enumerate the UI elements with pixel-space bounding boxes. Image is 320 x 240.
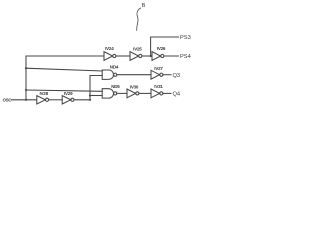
node dot PS3 tap <box>150 55 152 57</box>
svg-text:IV29: IV29 <box>64 91 73 96</box>
inverter IV27 <box>151 70 160 79</box>
wire IV31 to Q4 <box>163 92 171 94</box>
svg-text:OSC: OSC <box>3 98 12 103</box>
leader squiggle under B <box>137 8 141 31</box>
inverter IV24 <box>104 52 113 61</box>
inverter IV28 <box>37 96 46 104</box>
inverter IV30 <box>127 89 136 98</box>
svg-text:IV26: IV26 <box>157 46 166 51</box>
svg-text:IV28: IV28 <box>39 91 48 96</box>
node dot bus3 tap <box>25 89 27 91</box>
inverter IV31 <box>151 89 160 98</box>
inverter IV26 <box>152 52 161 61</box>
node dot on OSC wire <box>25 99 27 101</box>
wire ND5 input B <box>90 95 102 97</box>
wire IV29 to vertical junction <box>74 99 90 101</box>
nand ND5 <box>102 89 113 98</box>
node dot on OSC wire at x90 <box>89 99 91 101</box>
wire IV27 to Q3 <box>163 74 171 76</box>
svg-text:PS4: PS4 <box>180 54 191 60</box>
svg-text:Q4: Q4 <box>173 92 181 98</box>
svg-text:ND4: ND4 <box>110 64 119 69</box>
wire IV25 to IV26 with PS3 tap <box>142 55 152 57</box>
nand ND4 <box>102 70 113 79</box>
svg-text:ND5: ND5 <box>111 84 120 89</box>
svg-text:PS3: PS3 <box>180 35 191 41</box>
svg-text:IV25: IV25 <box>133 47 142 52</box>
wire IV28 to IV29 <box>49 99 63 101</box>
node dot bus2 tap <box>25 67 27 69</box>
svg-text:IV24: IV24 <box>105 46 114 51</box>
wire bus3 to ND5 input A <box>26 90 102 91</box>
wire bus2 to ND4 input A <box>26 68 102 71</box>
svg-text:IV30: IV30 <box>130 84 139 89</box>
wire ND4 to IV27 <box>117 74 151 76</box>
inverter IV25 <box>130 52 139 61</box>
inverter IV29 <box>62 96 70 104</box>
svg-text:Q3: Q3 <box>173 73 181 79</box>
wire up to PS3 <box>151 37 179 56</box>
svg-text:IV27: IV27 <box>154 66 163 71</box>
wire IV26 to PS4 <box>164 55 179 57</box>
svg-text:IV31: IV31 <box>154 84 163 89</box>
wire IV24 to IV25 <box>116 55 130 57</box>
wire OSC to IV28 <box>12 99 37 101</box>
node dot ND5 input B tap <box>89 94 91 96</box>
wire ND4 input B from vertical <box>90 76 102 100</box>
wire ND5 to IV30 <box>117 92 127 94</box>
wire IV30 to IV31 <box>139 92 151 94</box>
wire row1 input from left vertical to IV24 <box>26 56 104 100</box>
svg-text:B: B <box>142 3 146 9</box>
